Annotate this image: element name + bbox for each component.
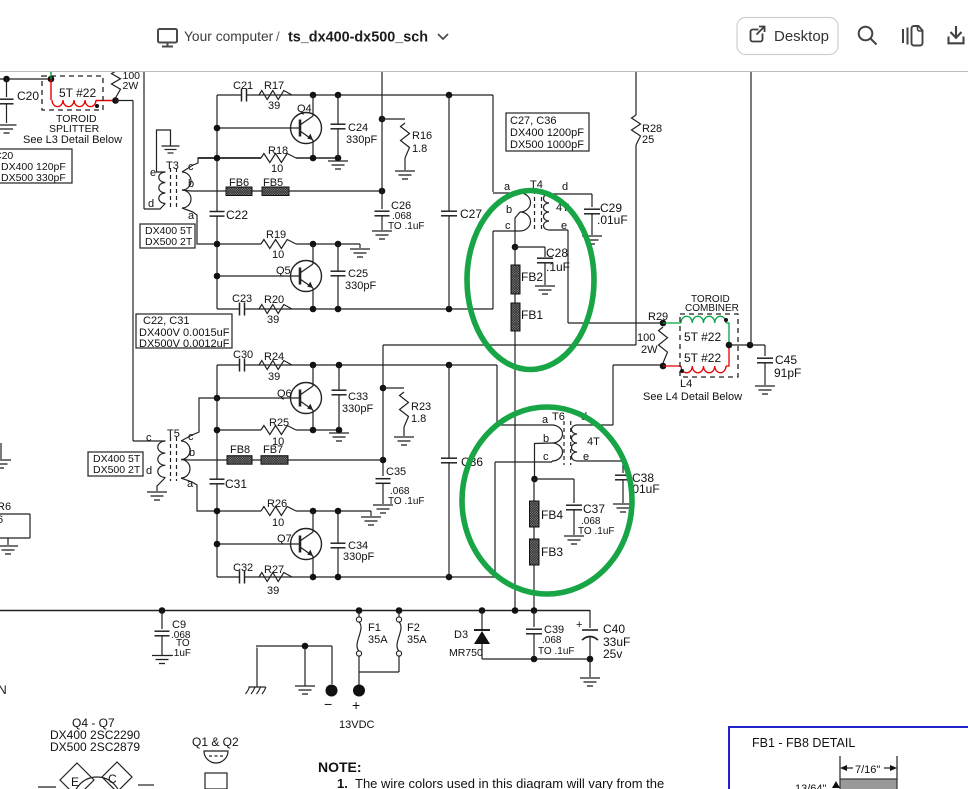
svg-text:C22, C31: C22, C31 [143, 315, 189, 327]
svg-text:a: a [542, 414, 549, 426]
svg-text:35A: 35A [407, 634, 427, 646]
svg-text:F1: F1 [368, 622, 381, 634]
svg-text:C24: C24 [348, 122, 368, 134]
svg-text:DX500V 0.0012uF: DX500V 0.0012uF [139, 338, 230, 350]
svg-text:FB1 - FB8 DETAIL: FB1 - FB8 DETAIL [752, 736, 855, 750]
svg-text:25v: 25v [603, 647, 622, 661]
svg-text:T5: T5 [167, 428, 180, 440]
svg-text:e: e [150, 167, 156, 179]
svg-text:C33: C33 [348, 391, 368, 403]
svg-text:+: + [352, 697, 360, 713]
svg-text:R19: R19 [266, 229, 286, 241]
svg-text:R20: R20 [264, 294, 284, 306]
svg-text:C37: C37 [583, 502, 605, 516]
svg-text:C23: C23 [232, 293, 252, 305]
svg-text:Q7: Q7 [277, 533, 292, 545]
svg-text:C30: C30 [233, 349, 253, 361]
svg-text:c: c [188, 431, 194, 443]
svg-text:330pF: 330pF [346, 134, 377, 146]
svg-text:Desktop: Desktop [774, 28, 829, 45]
svg-text:DX400 1200pF: DX400 1200pF [510, 127, 584, 139]
svg-text:C28: C28 [546, 246, 568, 260]
svg-text:FB7: FB7 [263, 444, 283, 456]
svg-text:C35: C35 [386, 466, 406, 478]
svg-text:C32: C32 [233, 562, 253, 574]
svg-text:/: / [276, 29, 280, 44]
svg-text:DX500 1000pF: DX500 1000pF [510, 139, 584, 151]
svg-text:DX500 330pF: DX500 330pF [1, 172, 66, 184]
svg-text:Q6: Q6 [277, 388, 292, 400]
svg-text:DX500 2T: DX500 2T [93, 464, 141, 476]
svg-text:See L4 Detail Below: See L4 Detail Below [643, 391, 742, 403]
svg-text:TO .1uF: TO .1uF [578, 526, 615, 537]
svg-text:The wire colors used in this d: The wire colors used in this diagram wil… [355, 776, 664, 789]
svg-text:+: + [576, 619, 582, 631]
svg-text:R16: R16 [412, 130, 432, 142]
svg-text:R18: R18 [268, 145, 288, 157]
svg-text:39: 39 [267, 314, 279, 326]
svg-text:e: e [561, 220, 567, 232]
svg-text:See L3 Detail Below: See L3 Detail Below [23, 134, 122, 146]
svg-text:1.8: 1.8 [412, 143, 427, 155]
svg-text:5T #22: 5T #22 [59, 86, 96, 100]
svg-text:R25: R25 [269, 417, 289, 429]
svg-text:C45: C45 [775, 353, 797, 367]
svg-text:4T: 4T [587, 436, 600, 448]
svg-text:1.: 1. [337, 776, 348, 789]
svg-text:100: 100 [637, 332, 655, 344]
svg-text:C22: C22 [226, 208, 248, 222]
svg-text:5T #22: 5T #22 [684, 351, 721, 365]
svg-text:10: 10 [272, 517, 284, 529]
svg-text:NOTE:: NOTE: [318, 759, 362, 775]
svg-text:d: d [148, 198, 154, 210]
svg-text:FB5: FB5 [263, 177, 283, 189]
svg-text:D3: D3 [454, 629, 468, 641]
svg-text:F2: F2 [407, 622, 420, 634]
svg-text:TO .1uF: TO .1uF [538, 646, 575, 657]
svg-text:R17: R17 [264, 80, 284, 92]
svg-text:.068: .068 [542, 635, 562, 646]
svg-text:.1uF: .1uF [546, 260, 570, 274]
svg-text:COMBINER: COMBINER [685, 303, 739, 314]
svg-text:c: c [505, 220, 511, 232]
svg-text:13/64": 13/64" [795, 783, 827, 789]
svg-text:Your computer: Your computer [184, 29, 274, 44]
svg-text:N: N [0, 683, 7, 697]
svg-text:10: 10 [271, 163, 283, 175]
svg-text:.01uF: .01uF [597, 213, 628, 227]
svg-text:C31: C31 [225, 477, 247, 491]
svg-text:35A: 35A [368, 634, 388, 646]
svg-text:2W: 2W [641, 344, 658, 356]
svg-text:13VDC: 13VDC [339, 719, 375, 731]
svg-text:R23: R23 [411, 401, 431, 413]
svg-text:FB2: FB2 [521, 270, 543, 284]
svg-text:b: b [506, 204, 512, 216]
svg-text:R27: R27 [264, 564, 284, 576]
svg-text:Q5: Q5 [276, 265, 291, 277]
svg-text:MR750: MR750 [449, 647, 483, 659]
svg-text:C25: C25 [348, 268, 368, 280]
svg-text:L4: L4 [680, 378, 692, 390]
svg-text:T6: T6 [552, 411, 565, 423]
svg-text:Q4: Q4 [297, 103, 312, 115]
svg-text:C21: C21 [233, 80, 253, 92]
svg-text:c: c [188, 161, 194, 173]
svg-text:Q1 & Q2: Q1 & Q2 [192, 735, 239, 749]
svg-text:FB1: FB1 [521, 308, 543, 322]
svg-text:39: 39 [268, 100, 280, 112]
svg-text:R26: R26 [267, 498, 287, 510]
svg-text:2W: 2W [123, 80, 139, 92]
svg-text:330pF: 330pF [342, 403, 373, 415]
svg-text:−: − [324, 696, 332, 712]
svg-text:10: 10 [272, 249, 284, 261]
svg-text:330pF: 330pF [343, 551, 374, 563]
svg-text:c: c [146, 432, 152, 444]
svg-text:R24: R24 [264, 351, 284, 363]
svg-text:a: a [187, 478, 194, 490]
svg-text:a: a [188, 210, 195, 222]
svg-text:C27: C27 [460, 207, 482, 221]
svg-text:d: d [146, 465, 152, 477]
svg-text:c: c [543, 451, 549, 463]
svg-text:R6: R6 [0, 501, 11, 513]
svg-text:FB4: FB4 [541, 508, 563, 522]
svg-text:TO .1uF: TO .1uF [388, 221, 425, 232]
svg-text:39: 39 [268, 371, 280, 383]
svg-text:b: b [188, 178, 194, 190]
svg-text:25: 25 [642, 134, 654, 146]
svg-text:FB3: FB3 [541, 545, 563, 559]
svg-text:C40: C40 [603, 622, 625, 636]
svg-text:330pF: 330pF [345, 280, 376, 292]
svg-text:d: d [562, 181, 568, 193]
svg-text:a: a [504, 181, 511, 193]
svg-text:C: C [108, 772, 117, 786]
svg-text:39: 39 [267, 585, 279, 597]
svg-text:5T #22: 5T #22 [684, 330, 721, 344]
svg-text:b: b [189, 447, 195, 459]
svg-text:FB8: FB8 [230, 444, 250, 456]
svg-text:.1uF: .1uF [171, 648, 191, 659]
svg-text:7/16": 7/16" [855, 764, 880, 776]
svg-text:91pF: 91pF [774, 366, 801, 380]
svg-text:DX500 2SC2879: DX500 2SC2879 [50, 740, 140, 754]
svg-text:FB6: FB6 [229, 177, 249, 189]
svg-text:C27, C36: C27, C36 [510, 115, 556, 127]
svg-text:C20: C20 [17, 89, 39, 103]
svg-text:e: e [583, 451, 589, 463]
svg-text:1.8: 1.8 [411, 413, 426, 425]
svg-text:DX500 2T: DX500 2T [145, 236, 193, 248]
svg-text:b: b [543, 433, 549, 445]
svg-text:6: 6 [0, 514, 3, 526]
svg-text:TO .1uF: TO .1uF [388, 496, 425, 507]
svg-text:ts_dx400-dx500_sch: ts_dx400-dx500_sch [288, 30, 428, 46]
